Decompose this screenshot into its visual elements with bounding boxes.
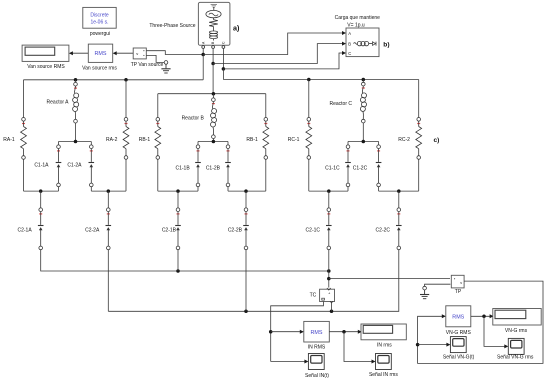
wire phase B cap bus	[198, 141, 228, 143]
wire TP- to ground	[425, 284, 451, 286]
wire C1-1A to bottom bus	[58, 187, 60, 191]
resistor RB-1 (right)	[263, 118, 269, 160]
svg-text:B: B	[348, 41, 351, 46]
svg-text:C2-2A: C2-2A	[85, 227, 100, 233]
arrow into IN rms display	[358, 330, 362, 334]
wire to scope Señal IN(t)	[271, 360, 309, 364]
wire bus to RA-1	[23, 80, 25, 118]
wire phase B to carga B	[213, 44, 345, 64]
scope Señal IN rms	[376, 354, 392, 370]
wire C2-1A to measure bus	[41, 250, 329, 271]
TP Van source voltage measurement block	[133, 48, 146, 59]
svg-text:powergui: powergui	[90, 31, 110, 37]
powergui block	[83, 7, 116, 28]
wire C2-1C down to TC	[328, 250, 330, 288]
svg-text:b): b)	[383, 41, 389, 48]
wire phase A bottom bus left	[24, 190, 59, 192]
wire to C2-1A	[40, 191, 42, 208]
display Van source RMS	[22, 45, 69, 61]
svg-text:Van source rms: Van source rms	[82, 66, 117, 72]
node reactor C bottom	[362, 140, 366, 144]
svg-text:Señal IN(t): Señal IN(t)	[305, 373, 329, 379]
node C2-1A top	[39, 189, 43, 193]
node IN signal	[269, 330, 273, 334]
capacitor C1-2A	[89, 145, 95, 187]
svg-text:RC-1: RC-1	[288, 137, 300, 143]
wire reactor C to cap node	[362, 123, 364, 142]
wire bus to reactor B	[212, 94, 214, 98]
node RA-2 top	[124, 78, 128, 82]
wire to C2-2A	[107, 191, 109, 208]
port C terminal	[222, 46, 225, 49]
current measurement TC	[320, 288, 335, 303]
ground (TP)	[420, 290, 429, 299]
wire TP+ to phase A node	[146, 51, 203, 55]
wire into IN RMS	[271, 330, 304, 334]
arrow into VN-G RMS	[442, 314, 446, 318]
wire bus to RC-1	[308, 80, 310, 118]
node C2-2A top	[107, 189, 111, 193]
node C2-2C top	[397, 189, 401, 193]
wire RB-1 right to bottom bus	[265, 159, 267, 191]
svg-text:C1-2B: C1-2B	[206, 166, 221, 172]
wire to C1-1B	[197, 142, 199, 145]
wire C1-1C to bottom bus	[347, 187, 349, 191]
wire B down to phase B bus	[212, 64, 214, 94]
wire phase A top bus	[24, 79, 204, 81]
wire bus to reactor A	[75, 80, 77, 83]
svg-text:RA-1: RA-1	[3, 137, 15, 143]
wire A down to phase A bus	[202, 55, 204, 80]
wire C1-2C to bottom bus	[378, 187, 380, 191]
wire measure node to TP	[329, 278, 450, 280]
wire C down to phase C bus	[222, 69, 224, 80]
capacitor C1-2C	[376, 145, 382, 187]
scope Señal VN-G rms	[508, 338, 524, 354]
svg-text:C2-1C: C2-1C	[306, 227, 321, 233]
svg-text:C2-1A: C2-1A	[18, 227, 33, 233]
node reactor B bottom	[212, 140, 216, 144]
wire source port C down	[222, 49, 224, 69]
svg-text:C2-2B: C2-2B	[228, 227, 243, 233]
carga port A arrow	[342, 31, 346, 35]
svg-text:Carga que mantiene: Carga que mantiene	[335, 15, 381, 21]
wire source port B down	[212, 49, 214, 64]
capacitor C1-1A	[56, 145, 62, 187]
wire to scope Señal VN-G rms	[484, 316, 508, 348]
carga port B arrow	[342, 42, 346, 46]
wire C2-1B down	[177, 250, 179, 271]
node IN rms branch	[342, 330, 346, 334]
svg-text:VN-G RMS: VN-G RMS	[446, 330, 472, 336]
node C2-1C top	[327, 189, 331, 193]
wire phase C bottom bus left	[309, 190, 348, 192]
node C2-2B top	[244, 189, 248, 193]
ground terminal (TP)	[423, 286, 427, 290]
wire RC-2 to bottom bus	[418, 159, 420, 191]
wire source port A down	[202, 49, 204, 55]
carga port C arrow	[342, 51, 346, 55]
svg-text:v: v	[460, 281, 462, 285]
svg-text:Señal VN-G rms: Señal VN-G rms	[497, 354, 534, 360]
svg-text:RMS: RMS	[95, 51, 107, 57]
svg-text:Reactor C: Reactor C	[329, 101, 352, 107]
port B terminal	[212, 46, 215, 49]
wire C1-2A to bottom bus	[90, 187, 92, 191]
svg-text:IN RMS: IN RMS	[308, 344, 326, 350]
capacitor C2-1A	[38, 208, 44, 250]
node C2-2B join	[244, 310, 248, 314]
node C2-1B top	[176, 189, 180, 193]
carga que mantiene block	[346, 28, 379, 57]
wire phase B top bus	[158, 93, 266, 95]
node TC return join	[330, 310, 334, 314]
ground terminal (Van source)	[164, 61, 168, 65]
wire C2-2A down	[107, 250, 109, 312]
RMS block Van source rms	[88, 44, 112, 62]
svg-text:RC-2: RC-2	[398, 137, 410, 143]
svg-text:C: C	[348, 51, 351, 56]
reactor C	[360, 82, 366, 123]
node VN-G rms branch	[482, 315, 486, 319]
wire TP out loop to VN-G RMS	[418, 281, 543, 363]
wire TP- to ground	[146, 55, 164, 62]
svg-text:RMS: RMS	[311, 330, 323, 336]
wire phase A bottom bus right	[91, 190, 126, 192]
node TP measure tap	[327, 277, 331, 281]
svg-text:TP: TP	[455, 289, 462, 295]
wire phase C top bus	[223, 79, 418, 81]
capacitor C1-1C	[345, 145, 351, 187]
node RC-1 top	[307, 78, 311, 82]
wire phase C to carga C	[223, 53, 344, 69]
reactor B	[211, 98, 217, 139]
wire to scope Señal IN rms	[344, 332, 376, 364]
wire bus to reactor C	[362, 80, 364, 83]
node phase A tap	[201, 53, 205, 57]
svg-text:C1-1A: C1-1A	[34, 162, 49, 168]
svg-text:TC: TC	[310, 292, 317, 298]
capacitor C1-1B	[195, 145, 201, 187]
resistor RA-1	[21, 118, 27, 160]
wire reactor A to cap node	[75, 123, 77, 142]
node phase C tap	[222, 67, 226, 71]
svg-text:Reactor A: Reactor A	[47, 99, 70, 105]
capacitor C2-1B	[175, 208, 181, 250]
svg-text:1e-06 s.: 1e-06 s.	[90, 20, 108, 26]
svg-text:Señal VN-G(t): Señal VN-G(t)	[443, 354, 475, 360]
capacitor C1-2B	[225, 145, 231, 187]
wire RC-1 to bottom bus	[308, 159, 310, 191]
wire RA-1 to bottom bus	[23, 159, 25, 191]
voltage measurement TP	[451, 275, 464, 288]
RMS block VN-G RMS	[446, 306, 471, 327]
capacitor C2-2C	[396, 208, 402, 250]
wire phase A cap bus	[59, 141, 92, 143]
svg-text:IN rms: IN rms	[377, 342, 392, 348]
scope Señal IN(t)	[308, 354, 324, 370]
wire TC return down	[331, 303, 333, 312]
wire TP Van source to RMS	[113, 51, 134, 55]
svg-text:C1-2A: C1-2A	[67, 162, 82, 168]
display VN-G rms	[493, 309, 541, 326]
wire to C1-1A	[58, 142, 60, 145]
node reactor C top	[362, 78, 366, 82]
svg-text:v: v	[136, 51, 138, 56]
node VN-G branch	[416, 343, 420, 347]
wire TC signal out	[271, 302, 324, 362]
wire to C1-2C	[378, 142, 380, 145]
capacitor C2-2B	[243, 208, 249, 250]
display IN rms	[361, 324, 406, 340]
svg-text:Reactor B: Reactor B	[182, 116, 205, 122]
wire bus to RA-2	[125, 80, 127, 118]
svg-text:a): a)	[233, 24, 240, 33]
wire to C1-1C	[347, 142, 349, 145]
resistor RC-1	[306, 118, 312, 160]
node phase B tap	[211, 62, 215, 66]
wire to C2-1B	[177, 191, 179, 208]
svg-text:Three-Phase Source: Three-Phase Source	[149, 23, 195, 29]
wire to C1-2A	[90, 142, 92, 145]
wire bus to RB-1	[157, 94, 159, 118]
wire phase A to carga A	[203, 33, 344, 55]
wire phase B bottom bus right	[228, 190, 266, 192]
wire bus to RB-1 right	[265, 94, 267, 118]
svg-text:RB-1: RB-1	[139, 137, 151, 143]
svg-text:C2-1B: C2-1B	[162, 227, 177, 233]
svg-text:RMS: RMS	[452, 314, 464, 320]
wire return bus to C2-2C	[108, 250, 399, 312]
svg-text:RA-2: RA-2	[106, 137, 118, 143]
svg-text:C2-2C: C2-2C	[376, 227, 391, 233]
scope Señal VN-G(t)	[450, 337, 466, 353]
wire RB-1 to bottom bus	[157, 159, 159, 191]
node C2-1C join	[327, 269, 331, 273]
wire to scope Señal VN-G(t)	[418, 343, 451, 347]
wire RMS to display	[69, 51, 88, 55]
svg-text:Señal IN rms: Señal IN rms	[369, 372, 398, 378]
svg-text:Discrete: Discrete	[90, 13, 109, 19]
svg-text:V= 1p.u: V= 1p.u	[347, 23, 365, 29]
node C2-1B join	[176, 269, 180, 273]
resistor RC-2	[416, 118, 422, 160]
svg-text:VN-G rms: VN-G rms	[505, 328, 528, 334]
ground (Van source)	[161, 64, 170, 73]
wire reactor B to cap node	[212, 139, 214, 142]
wire phase C bottom bus right	[379, 190, 419, 192]
capacitor C2-1C	[326, 208, 332, 250]
port A terminal	[202, 46, 205, 49]
wire to C1-2B	[227, 142, 229, 145]
resistor RA-2	[123, 118, 129, 160]
arrow into VN-G rms display	[490, 314, 494, 318]
svg-text:c): c)	[434, 137, 440, 144]
resistor RB-1	[155, 118, 161, 160]
wire C1-2B to bottom bus	[227, 187, 229, 191]
three-phase source block	[198, 2, 230, 45]
wire C2-2B down	[245, 250, 247, 312]
svg-text:RB-1: RB-1	[246, 137, 258, 143]
wire to C2-1C	[328, 191, 330, 208]
wire to C2-2B	[245, 191, 247, 208]
RMS block IN RMS	[304, 321, 330, 342]
wire RA-2 to bottom bus	[125, 159, 127, 191]
svg-text:C1-2C: C1-2C	[353, 166, 368, 172]
wire phase C cap bus	[348, 141, 379, 143]
wire to C2-2C	[398, 191, 400, 208]
svg-text:C1-1B: C1-1B	[176, 166, 191, 172]
wire bus to RC-2	[418, 80, 420, 118]
node reactor A top	[74, 78, 78, 82]
wire phase B bottom bus left	[158, 190, 198, 192]
capacitor C2-2A	[106, 208, 112, 250]
svg-text:A: A	[348, 31, 351, 36]
wire IN RMS out	[329, 331, 361, 333]
svg-text:C1-1C: C1-1C	[325, 166, 340, 172]
wire C1-1B to bottom bus	[197, 187, 199, 191]
node reactor A bottom	[74, 140, 78, 144]
node reactor B top	[212, 92, 216, 96]
wire VN-G RMS out	[471, 315, 493, 317]
reactor A	[73, 82, 79, 123]
svg-text:Van source RMS: Van source RMS	[27, 64, 65, 70]
